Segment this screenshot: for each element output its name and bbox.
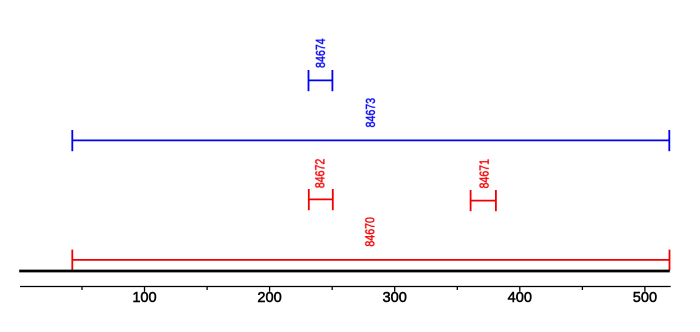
- svg-text:84674: 84674: [313, 38, 328, 68]
- fragment 84674 bar (blue): [309, 70, 333, 91]
- minor ticks: [82, 287, 582, 291]
- sequence backbone (thick black line): [19, 270, 670, 273]
- svg-text:84672: 84672: [313, 159, 328, 189]
- svg-text:300: 300: [383, 290, 407, 306]
- svg-text:84670: 84670: [362, 217, 377, 247]
- svg-text:84673: 84673: [363, 98, 378, 128]
- svg-text:500: 500: [633, 290, 657, 306]
- fragment 84672 bar (red): [309, 189, 333, 210]
- fragment 84671 bar (red): [471, 190, 496, 211]
- fragment 84670 bar (red): [72, 250, 669, 271]
- svg-text:200: 200: [257, 290, 281, 306]
- svg-text:100: 100: [132, 290, 156, 306]
- svg-text:400: 400: [508, 290, 532, 306]
- svg-text:84671: 84671: [477, 159, 492, 188]
- axis line: [20, 286, 671, 288]
- fragment 84673 bar (blue): [72, 130, 669, 151]
- major ticks: [145, 287, 645, 292]
